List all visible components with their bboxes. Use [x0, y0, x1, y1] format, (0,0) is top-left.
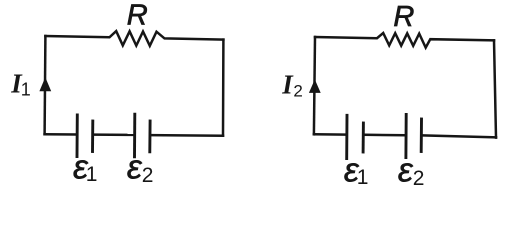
svg-text:1: 1 [86, 163, 98, 186]
svg-text:ε: ε [127, 149, 143, 187]
svg-text:2: 2 [413, 167, 425, 190]
svg-text:1: 1 [357, 166, 369, 189]
svg-text:R: R [393, 1, 414, 33]
svg-text:1: 1 [21, 79, 31, 99]
svg-text:I: I [281, 70, 294, 100]
svg-text:ε: ε [398, 151, 414, 189]
svg-text:2: 2 [142, 164, 154, 187]
svg-text:2: 2 [293, 82, 302, 101]
svg-text:R: R [127, 0, 148, 32]
